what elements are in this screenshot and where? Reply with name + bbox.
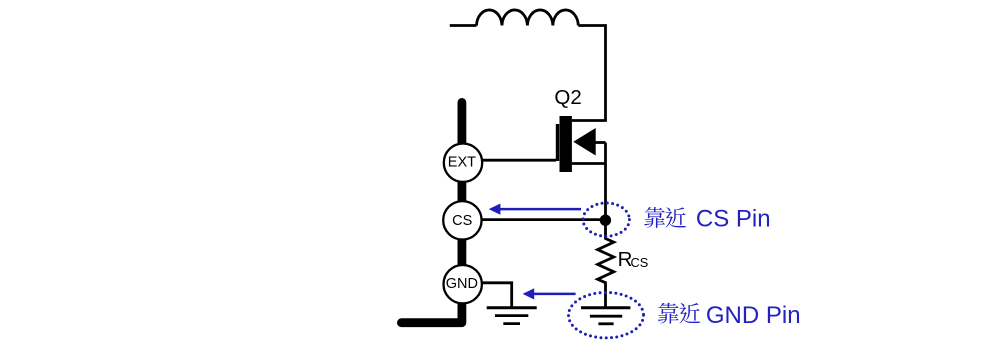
- inductor: [477, 10, 579, 26]
- resistor RCS: [598, 225, 614, 308]
- annotation ellipse: ground: [569, 293, 644, 338]
- IC pin bus (thick): [401, 102, 462, 322]
- ground (left, at GND pin): [487, 308, 537, 324]
- annotation text: 靠近 CS Pin: [644, 205, 770, 232]
- svg-text:CS: CS: [631, 255, 649, 270]
- wire: inductor left lead: [450, 24, 477, 27]
- arrow: to GND pin: [523, 288, 576, 299]
- annotation ellipse: CS node: [583, 203, 629, 236]
- ground (right, at RCS): [581, 308, 630, 324]
- wire: inductor to Q2 drain: [572, 26, 606, 121]
- transistor Q2: [556, 116, 606, 172]
- annotation text: 靠近GND Pin: [658, 302, 801, 329]
- wire: Q2 source down to CS node: [604, 143, 607, 220]
- wire: GND pin to ground: [482, 283, 512, 308]
- svg-text:GND: GND: [446, 276, 478, 292]
- wire: EXT pin to gate: [482, 159, 556, 162]
- pin EXT: [444, 144, 482, 182]
- pin CS: [443, 201, 481, 239]
- svg-text:GND Pin: GND Pin: [706, 302, 801, 329]
- svg-text:Q2: Q2: [554, 86, 581, 109]
- arrow: to CS pin: [489, 204, 581, 215]
- svg-text:EXT: EXT: [448, 155, 476, 171]
- node: CS sense node: [600, 215, 611, 226]
- wire: CS pin to node: [482, 218, 606, 221]
- svg-text:CS: CS: [452, 213, 472, 229]
- pin GND: [444, 265, 482, 303]
- svg-text:CS Pin: CS Pin: [696, 205, 771, 232]
